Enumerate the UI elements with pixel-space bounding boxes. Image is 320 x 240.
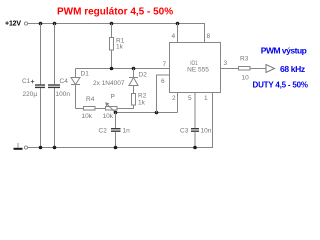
wire +12V top rail: [28, 24, 205, 43]
svg-text:220µ: 220µ: [23, 91, 38, 98]
wire pin3 output: [221, 68, 239, 70]
svg-text:1k: 1k: [116, 44, 124, 51]
+12V terminal: [24, 22, 27, 25]
svg-text:6: 6: [161, 78, 165, 85]
svg-text:DUTY 4,5 - 50%: DUTY 4,5 - 50%: [253, 80, 308, 89]
resistor R4: [76, 107, 106, 111]
svg-text:1: 1: [204, 95, 208, 102]
junction pin4 top: [176, 22, 180, 26]
svg-text:R2: R2: [138, 93, 147, 100]
svg-text:1n: 1n: [123, 128, 131, 135]
svg-text:+12V: +12V: [5, 20, 21, 27]
output arrow: [266, 65, 275, 73]
junction wiper C2: [114, 111, 118, 115]
junction R1 bottom: [110, 67, 114, 71]
junction C1 bottom: [39, 146, 43, 150]
svg-text:10n: 10n: [201, 128, 212, 135]
svg-text:10: 10: [242, 75, 250, 82]
svg-text:10k: 10k: [103, 113, 114, 120]
ground: [14, 143, 23, 149]
svg-text:2x 1N4007: 2x 1N4007: [93, 80, 125, 87]
svg-text:5: 5: [188, 95, 192, 102]
junction pin6: [155, 111, 159, 115]
wire pin2 stub: [177, 93, 179, 113]
wire wiper net: [116, 112, 178, 114]
resistor R2: [117, 94, 136, 109]
capacitor C2: [111, 113, 121, 148]
svg-text:100n: 100n: [56, 91, 71, 98]
svg-text:3: 3: [224, 60, 228, 67]
svg-text:C2: C2: [99, 128, 108, 135]
wire pin7 net: [76, 68, 170, 70]
svg-text:7: 7: [163, 61, 167, 68]
svg-text:D2: D2: [139, 72, 148, 79]
svg-text:D1: D1: [81, 71, 90, 78]
resistor R3: [239, 67, 267, 71]
junction C2 bottom: [114, 146, 118, 150]
ground terminal: [24, 146, 27, 149]
junction C4 bottom: [53, 146, 57, 150]
junction R1 top: [110, 22, 114, 26]
potentiometer P: [105, 102, 117, 112]
wire pin1 ground drop: [28, 93, 213, 148]
junction C3 bottom: [193, 146, 197, 150]
wire pin4 drop: [177, 24, 179, 43]
svg-text:C3: C3: [180, 128, 189, 135]
capacitor C1: [31, 24, 45, 148]
svg-text:2: 2: [172, 95, 176, 102]
svg-text:R4: R4: [86, 96, 95, 103]
junction C1 top: [39, 22, 43, 26]
op-amp-box IO1 NE555: [170, 43, 221, 93]
svg-text:PWM regulátor 4,5 - 50%: PWM regulátor 4,5 - 50%: [57, 7, 173, 18]
svg-text:C1: C1: [22, 78, 31, 85]
capacitor C4: [48, 24, 60, 148]
svg-text:P: P: [111, 94, 115, 101]
wire pin6 stub: [157, 75, 170, 113]
resistor R1: [110, 24, 114, 69]
svg-text:4: 4: [172, 33, 176, 40]
svg-text:10k: 10k: [82, 113, 93, 120]
svg-text:C4: C4: [60, 78, 69, 85]
diode D2: [129, 69, 138, 94]
capacitor C3: [191, 93, 199, 148]
svg-text:68 kHz: 68 kHz: [280, 64, 305, 74]
svg-text:8: 8: [207, 33, 211, 40]
diode D1: [71, 69, 80, 109]
svg-text:1k: 1k: [138, 100, 146, 107]
svg-text:NE 555: NE 555: [187, 67, 209, 74]
junction C4 top: [53, 22, 57, 26]
svg-text:PWM výstup: PWM výstup: [261, 46, 307, 56]
junction D2 top: [132, 67, 136, 71]
svg-text:R3: R3: [240, 56, 249, 63]
